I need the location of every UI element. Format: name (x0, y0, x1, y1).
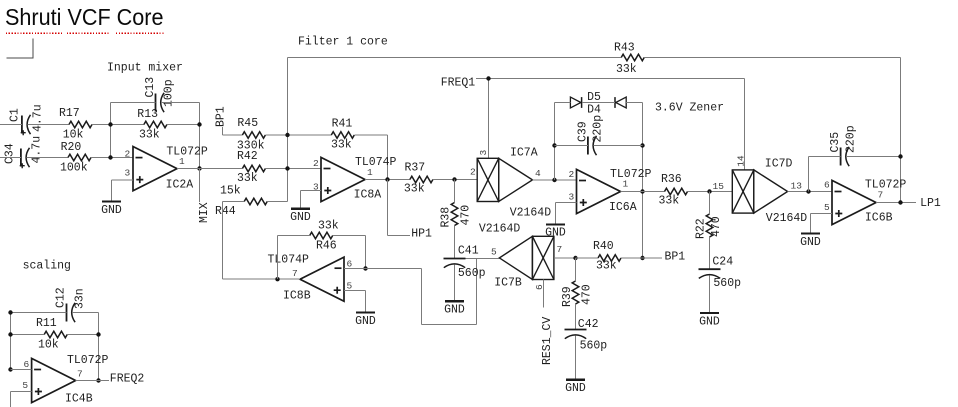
wire C42 to gnd (575, 336, 577, 380)
svg-text:BP1: BP1 (665, 251, 686, 264)
wire C35 right (846, 156, 900, 158)
wire (11, 312, 67, 314)
svg-text:C39: C39 (577, 121, 590, 142)
capacitor C39 (577, 115, 605, 155)
wire HP1 stub (388, 180, 410, 236)
wire (709, 192, 711, 215)
wire R43 right column (900, 58, 902, 203)
svg-text:33k: 33k (404, 182, 425, 195)
svg-text:IC6B: IC6B (865, 211, 893, 224)
svg-text:TL074P: TL074P (355, 156, 397, 169)
junction (806, 189, 810, 193)
wire R44 to IC8B out (222, 202, 224, 280)
svg-text:10k: 10k (63, 129, 84, 142)
wire IC7D out (788, 191, 832, 193)
wire (91, 157, 133, 159)
svg-text:IC8A: IC8A (354, 189, 382, 202)
junction (898, 200, 902, 204)
wire (167, 124, 200, 126)
ground (355, 313, 376, 328)
svg-text:LP1: LP1 (920, 197, 941, 210)
svg-text:GND: GND (800, 236, 821, 249)
wire IC2A pin3 to gnd (112, 180, 134, 202)
svg-text:3: 3 (569, 192, 575, 203)
junction (486, 76, 490, 80)
ground (290, 209, 311, 224)
svg-text:R42: R42 (237, 150, 258, 163)
svg-text:C24: C24 (712, 255, 733, 268)
wire FREQ1 row (476, 78, 745, 80)
svg-text:15: 15 (713, 181, 725, 192)
wire (278, 235, 310, 237)
wire scaling right column (98, 313, 100, 381)
op-amp IC2A (125, 146, 208, 192)
junction (573, 256, 577, 260)
resistor R17 (59, 107, 92, 142)
svg-text:C12: C12 (55, 287, 68, 308)
junction (275, 277, 279, 281)
wire C35 left (809, 157, 841, 192)
svg-text:5: 5 (347, 280, 353, 291)
svg-text:GND: GND (565, 382, 586, 395)
ground (800, 234, 821, 249)
wire (111, 102, 156, 104)
wire FREQ2 (76, 380, 109, 382)
svg-text:C34: C34 (4, 143, 17, 164)
resistor R13 (137, 108, 167, 141)
wire (576, 257, 599, 259)
ground (565, 380, 586, 395)
diode D5 (570, 91, 601, 108)
junction (108, 155, 112, 159)
svg-text:33k: 33k (659, 194, 680, 207)
wire BP1 right (643, 257, 663, 259)
wire IC8B pin5 to gnd (344, 291, 366, 313)
svg-text:470: 470 (581, 284, 594, 305)
wire (594, 145, 643, 147)
svg-text:Input mixer: Input mixer (107, 61, 183, 74)
svg-text:R20: R20 (61, 141, 82, 154)
wire (92, 124, 144, 126)
svg-text:TL074P: TL074P (268, 254, 310, 267)
svg-text:7: 7 (878, 190, 884, 201)
wire (709, 237, 711, 269)
svg-text:TL072P: TL072P (166, 146, 208, 159)
ground (101, 202, 122, 217)
resistor R39 (561, 281, 594, 307)
op-amp IC4B (22, 354, 108, 406)
wire (554, 103, 556, 181)
resistor R37 (404, 161, 433, 195)
resistor R42 (237, 150, 265, 185)
op-amp IC6A (569, 168, 652, 214)
capacitor C12 (55, 287, 87, 322)
svg-text:FREQ2: FREQ2 (110, 373, 145, 386)
wire (555, 102, 571, 104)
capacitor C13 (144, 77, 176, 113)
svg-text:33k: 33k (237, 172, 258, 185)
svg-text:R39: R39 (561, 286, 574, 307)
wire IC8A pin3 to gnd (301, 191, 322, 209)
wire IC4B pin6 (11, 369, 32, 371)
wire (27, 157, 69, 159)
svg-text:220p: 220p (845, 125, 858, 153)
svg-text:Shruti VCF Core: Shruti VCF Core (5, 4, 164, 30)
svg-text:R44: R44 (215, 205, 236, 218)
wire LP1 (876, 202, 916, 204)
capacitor C42 (565, 318, 608, 353)
junction (96, 378, 100, 382)
svg-text:6: 6 (347, 258, 353, 269)
wire (621, 257, 643, 259)
wire (265, 168, 321, 170)
wire BP1 stub (223, 127, 243, 135)
svg-text:7: 7 (292, 268, 298, 279)
frame corner mark (6, 38, 33, 58)
junction (96, 332, 100, 336)
junction (640, 256, 644, 260)
wire C41 to IC7B pin5 (466, 258, 500, 260)
svg-text:C42: C42 (578, 318, 599, 331)
wire IC7B pin7 out (554, 257, 576, 259)
junction (552, 178, 556, 182)
wire (644, 57, 900, 59)
junction (385, 177, 389, 181)
junction (8, 332, 12, 336)
svg-text:220p: 220p (592, 115, 605, 143)
wire (333, 235, 366, 237)
diode D4 (587, 97, 626, 116)
wire (454, 180, 456, 203)
svg-text:BP1: BP1 (215, 106, 228, 127)
junction (640, 143, 644, 147)
wire C24 to gnd (709, 276, 711, 314)
svg-text:3: 3 (478, 150, 489, 156)
svg-text:R37: R37 (405, 161, 426, 174)
spellcheck underline (6, 32, 165, 34)
wire IC4B pin5 (11, 392, 32, 407)
wire (67, 334, 98, 336)
capacitor C35 (829, 125, 858, 166)
svg-text:33k: 33k (331, 138, 352, 151)
svg-text:GND: GND (101, 204, 122, 217)
svg-text:IC7A: IC7A (510, 146, 538, 159)
op-amp IC8A (313, 156, 397, 202)
junction (452, 177, 456, 181)
capacitor C41 (444, 244, 486, 280)
VCA IC7B (479, 223, 562, 291)
svg-text:100k: 100k (60, 162, 88, 175)
svg-text:HP1: HP1 (411, 228, 432, 241)
svg-text:R40: R40 (593, 240, 614, 253)
svg-text:3: 3 (125, 168, 131, 179)
svg-text:1: 1 (367, 167, 373, 178)
ground (545, 224, 566, 239)
wire (72, 312, 99, 314)
wire (575, 258, 577, 281)
wire FREQ1 to IC7A pin3 (488, 79, 490, 159)
svg-text:14: 14 (736, 155, 747, 167)
junction (552, 143, 556, 147)
resistor R43 (614, 41, 644, 76)
capacitor C1 (9, 104, 45, 135)
wire IC7B pin6 stub (543, 280, 545, 308)
resistor R44 (215, 184, 267, 218)
svg-text:470: 470 (710, 216, 723, 237)
resistor R38 (440, 203, 473, 228)
svg-text:5: 5 (491, 246, 497, 257)
ground (444, 301, 465, 316)
svg-text:R38: R38 (440, 207, 453, 228)
svg-text:470: 470 (460, 205, 473, 226)
svg-text:5: 5 (824, 202, 830, 213)
wire (265, 134, 331, 136)
svg-text:IC6A: IC6A (609, 201, 637, 214)
resistor R41 (331, 117, 354, 151)
svg-text:13: 13 (791, 180, 803, 191)
resistor R45 (237, 117, 266, 153)
junction (197, 122, 201, 126)
wire summing column (287, 58, 289, 202)
wire FREQ1 to IC7D pin14 (744, 79, 746, 170)
wire (223, 201, 245, 203)
svg-text:33k: 33k (318, 220, 339, 233)
svg-text:R17: R17 (59, 107, 80, 120)
svg-text:R22: R22 (695, 218, 708, 239)
svg-text:GND: GND (355, 315, 376, 328)
junction (8, 310, 12, 314)
junction (707, 189, 711, 193)
junction (640, 189, 644, 193)
svg-text:V2164D: V2164D (479, 223, 521, 236)
svg-text:RES1_CV: RES1_CV (541, 317, 554, 365)
svg-text:2: 2 (569, 169, 575, 180)
svg-text:560p: 560p (458, 267, 486, 280)
wire scaling left column (10, 313, 12, 370)
wire (642, 103, 644, 259)
op-amp IC6B (824, 179, 906, 225)
wire node to IC2A pin2 (110, 103, 112, 158)
wire (433, 179, 477, 181)
wire IC7A out to IC6A (533, 179, 577, 181)
svg-text:TL072P: TL072P (67, 354, 109, 367)
VCA IC7A (470, 146, 551, 219)
svg-text:6: 6 (824, 180, 830, 191)
svg-text:MIX: MIX (198, 202, 211, 223)
wire IC6B pin5 to gnd (811, 214, 833, 234)
capacitor C34 (4, 136, 44, 168)
wire R46 left leg (277, 236, 279, 280)
resistor R11 (36, 317, 67, 352)
wire (28, 124, 70, 126)
VCA IC7D (713, 155, 808, 225)
svg-text:GND: GND (444, 304, 465, 317)
svg-text:GND: GND (699, 315, 720, 328)
wire C13 right to output (199, 103, 201, 169)
wire R46 right leg (365, 236, 367, 269)
op-amp IC8B (268, 254, 353, 303)
wire (267, 201, 287, 203)
svg-text:4.7u: 4.7u (32, 104, 45, 132)
junction (197, 166, 201, 170)
svg-text:6: 6 (24, 359, 30, 370)
svg-text:2: 2 (125, 149, 131, 160)
svg-text:TL072P: TL072P (865, 179, 907, 192)
svg-text:560p: 560p (580, 340, 608, 353)
svg-text:D4: D4 (587, 104, 601, 117)
resistor R22 (695, 214, 724, 239)
junction (363, 266, 367, 270)
ground (699, 313, 720, 328)
svg-text:R36: R36 (661, 173, 682, 186)
wire MIX stub (199, 169, 201, 203)
svg-text:GND: GND (545, 227, 566, 240)
wire (161, 102, 200, 104)
wire R41 to IC8A out (354, 135, 387, 180)
svg-text:3.6V Zener: 3.6V Zener (655, 102, 724, 115)
svg-text:560p: 560p (713, 277, 741, 290)
svg-text:5: 5 (22, 380, 28, 391)
junction (285, 166, 289, 170)
wire (582, 102, 615, 104)
wire C41 to gnd (454, 265, 456, 302)
svg-text:33k: 33k (139, 129, 160, 142)
wire (555, 145, 588, 147)
svg-text:33k: 33k (596, 260, 617, 273)
wire (0, 157, 21, 159)
wire IC8B pin6 row (344, 268, 422, 270)
svg-text:C13: C13 (144, 77, 157, 98)
svg-text:IC7D: IC7D (765, 157, 793, 170)
svg-text:1: 1 (179, 156, 185, 167)
svg-text:10k: 10k (38, 338, 59, 351)
junction (285, 133, 289, 137)
svg-text:33n: 33n (74, 288, 87, 309)
svg-text:C41: C41 (458, 244, 479, 257)
wire (626, 102, 642, 104)
wire (575, 304, 577, 330)
svg-text:2: 2 (470, 167, 476, 178)
junction (108, 122, 112, 126)
wire IC6A out (621, 191, 665, 193)
svg-text:7: 7 (557, 244, 563, 255)
svg-text:4.7u: 4.7u (31, 136, 44, 164)
svg-text:IC8B: IC8B (283, 290, 311, 303)
svg-text:C1: C1 (9, 108, 22, 122)
svg-text:R45: R45 (237, 117, 258, 130)
resistor R36 (659, 173, 688, 208)
svg-text:R46: R46 (316, 240, 337, 253)
svg-text:4: 4 (535, 168, 541, 179)
wire (454, 226, 456, 259)
svg-text:R11: R11 (36, 317, 57, 330)
svg-text:R43: R43 (614, 41, 635, 54)
svg-text:2: 2 (313, 158, 319, 169)
wire (422, 259, 477, 325)
svg-text:FREQ1: FREQ1 (441, 77, 476, 90)
resistor R46 (310, 220, 339, 253)
svg-text:scaling: scaling (23, 260, 71, 273)
resistor R40 (593, 240, 621, 273)
junction (898, 154, 902, 158)
svg-text:15k: 15k (220, 184, 241, 197)
svg-text:1: 1 (623, 179, 629, 190)
svg-text:IC7B: IC7B (494, 277, 522, 290)
wire IC8B out (223, 278, 301, 280)
svg-text:GND: GND (290, 211, 311, 224)
wire (688, 191, 733, 193)
svg-text:Filter 1 core: Filter 1 core (298, 36, 388, 49)
svg-text:33k: 33k (616, 63, 637, 76)
wire (177, 168, 242, 170)
junction (8, 367, 12, 371)
wire IC8A out (365, 179, 410, 181)
wire (11, 334, 45, 336)
resistor R20 (60, 141, 91, 175)
capacitor C24 (699, 255, 742, 290)
wire (288, 57, 622, 59)
wire IC6A pin3 to gnd (556, 203, 577, 225)
svg-text:C35: C35 (829, 132, 842, 153)
svg-text:IC4B: IC4B (65, 393, 93, 406)
svg-text:TL072P: TL072P (610, 168, 652, 181)
svg-text:V2164D: V2164D (766, 212, 808, 225)
wire (0, 124, 22, 126)
svg-text:V2164D: V2164D (510, 206, 552, 219)
svg-text:R41: R41 (332, 117, 353, 130)
svg-text:7: 7 (77, 369, 83, 380)
svg-text:IC2A: IC2A (166, 178, 194, 191)
